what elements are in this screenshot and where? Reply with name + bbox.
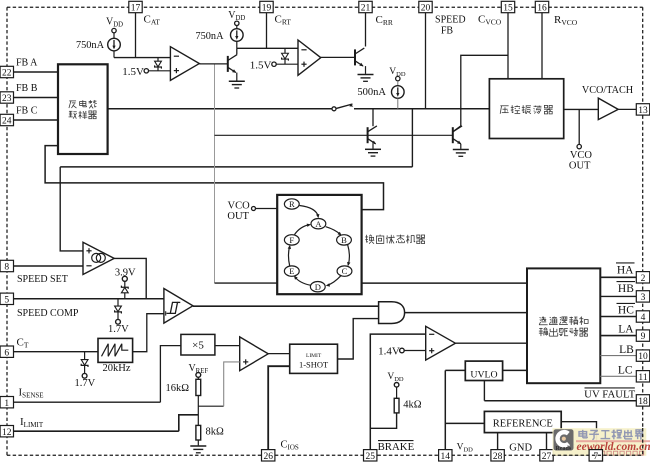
svg-text:19: 19	[262, 4, 272, 14]
svg-text:4: 4	[641, 313, 646, 323]
watermark red underline strip	[576, 440, 650, 442]
diode 1.7V clamp	[117, 299, 119, 306]
resistor 8k	[196, 425, 201, 440]
svg-text:HC: HC	[618, 305, 634, 317]
pin 6	[0, 346, 13, 357]
wire FB C	[14, 119, 59, 121]
wire discharge transistor base line	[215, 134, 453, 136]
svg-text:13: 13	[638, 106, 648, 116]
resistor 4k	[394, 398, 399, 413]
CJK char 向	[379, 235, 381, 236]
transistor Q4	[452, 127, 454, 143]
pin 2	[636, 272, 649, 283]
svg-text:SPEED COMP: SPEED COMP	[17, 308, 79, 319]
transistor Q3	[367, 127, 369, 143]
wire CIOS pin26 to one-shot	[268, 366, 290, 449]
CJK char 驱	[559, 327, 563, 329]
CJK char 和	[581, 317, 582, 318]
wire ILIMIT	[14, 430, 179, 432]
svg-text:VCO: VCO	[228, 200, 251, 211]
wire U1 output	[199, 63, 228, 65]
wire sampler phase-select feedback	[45, 146, 383, 210]
CJK char 器	[417, 235, 420, 237]
wire align-done to state machine	[215, 282, 278, 284]
diode 1.7V clamp CT	[84, 352, 86, 360]
wire VDD to reference	[445, 422, 484, 424]
svg-text:VCO: VCO	[570, 150, 593, 161]
CJK char 电	[579, 432, 587, 437]
svg-text:10: 10	[638, 352, 648, 362]
wire ISENSE	[14, 401, 161, 403]
pin 10	[636, 350, 649, 361]
svg-text:20: 20	[421, 4, 431, 14]
pin 27	[540, 450, 553, 461]
pin 7	[589, 450, 602, 461]
svg-text:15: 15	[503, 4, 513, 14]
pin 12	[0, 426, 13, 437]
wire HA	[600, 276, 636, 278]
wire 1.5V to comparator U2	[276, 63, 298, 65]
CJK char 势	[89, 101, 93, 103]
svg-text:LIMIT: LIMIT	[306, 353, 322, 359]
svg-text:3: 3	[641, 293, 646, 303]
watermark logo	[554, 429, 574, 450]
pin 17	[129, 1, 142, 12]
svg-text:SPEED SET: SPEED SET	[17, 274, 68, 285]
CJK char 换	[366, 235, 368, 243]
wire SPEED SET	[14, 265, 84, 267]
wire osc to PWM comparator	[133, 314, 164, 352]
state B	[337, 235, 352, 245]
gm error amplifier	[83, 242, 114, 274]
svg-text:1.7V: 1.7V	[108, 324, 129, 335]
svg-text:LB: LB	[619, 344, 634, 356]
wire SPEED COMP node	[14, 298, 164, 300]
wire Q1 collector	[236, 48, 238, 54]
output driver box	[527, 268, 600, 383]
wire VDD to UVLO	[445, 369, 465, 371]
terminal circle	[112, 28, 116, 32]
svg-text:1: 1	[4, 399, 9, 409]
svg-text:×5: ×5	[192, 340, 204, 352]
pin 16	[535, 1, 548, 12]
svg-text:LC: LC	[618, 365, 633, 377]
svg-text:17: 17	[131, 4, 141, 14]
svg-text:16: 16	[537, 4, 547, 14]
pin 20	[419, 1, 432, 12]
transistor Q1	[227, 56, 229, 72]
state A	[311, 219, 326, 229]
wire AND output to driver	[405, 312, 527, 314]
zener 3.9V clamp	[124, 281, 126, 287]
svg-text:5: 5	[4, 295, 9, 305]
wire buffer to pin13	[618, 108, 636, 110]
wire pin19 to CRT node	[266, 13, 268, 49]
wire Q4 collector to CVCO	[453, 55, 508, 132]
arrow C to D	[327, 276, 341, 286]
CJK char 工	[601, 430, 609, 432]
CJK char 器	[544, 105, 547, 107]
wire pin17 to CAT node	[135, 13, 137, 58]
wire one-shot output to AND	[338, 319, 379, 359]
arrow D to E	[295, 277, 311, 285]
wire 1.5V to comparator U1	[149, 70, 171, 72]
current source 750nA I2	[231, 29, 244, 42]
svg-text:UV FAULT: UV FAULT	[584, 388, 635, 400]
pin 25	[364, 450, 377, 461]
svg-text:FB: FB	[441, 26, 454, 37]
comparator U2 (ramp)	[298, 40, 321, 75]
svg-text:SPEED: SPEED	[435, 15, 466, 26]
svg-text:16kΩ: 16kΩ	[165, 383, 189, 394]
svg-text:FB B: FB B	[16, 83, 38, 94]
svg-text:1-SHOT: 1-SHOT	[299, 360, 329, 370]
svg-text:750nA: 750nA	[195, 31, 224, 42]
svg-text:24: 24	[2, 117, 12, 127]
CJK char 控	[511, 105, 513, 113]
pin 9	[636, 330, 649, 341]
CJK char 选	[541, 317, 544, 318]
clamp diode D1	[157, 58, 159, 62]
svg-text:B: B	[341, 235, 347, 245]
CJK char 器	[580, 328, 583, 330]
20kHz triangle oscillator box	[98, 338, 133, 362]
wire pin14 VDD rail	[444, 370, 446, 449]
CJK char 反	[69, 100, 76, 102]
svg-text:4kΩ: 4kΩ	[403, 399, 422, 410]
wire CRT node	[237, 47, 298, 49]
arrow A to B	[326, 227, 341, 235]
svg-text:HB: HB	[618, 283, 634, 295]
CJK char 取	[69, 110, 73, 112]
arrow B to C	[348, 245, 350, 265]
wire LC	[600, 375, 636, 377]
wire switch to VCO input	[354, 108, 489, 110]
pin 4	[636, 311, 649, 322]
pin 5	[0, 293, 13, 304]
CJK char 态	[397, 235, 405, 237]
wire ILIMIT join	[179, 415, 199, 431]
LIMIT 1-SHOT box	[290, 344, 338, 373]
pin 19	[260, 1, 273, 12]
svg-text:OUT: OUT	[569, 161, 591, 172]
PWM comparator U3	[164, 289, 193, 324]
wire pin16 to VCO box	[541, 13, 543, 79]
pin 3	[636, 291, 649, 302]
watermark small text	[594, 451, 598, 455]
svg-text:6: 6	[4, 348, 9, 358]
dashed boundary bottom segment over watermark	[552, 454, 643, 456]
dashed boundary right segment over watermark	[642, 428, 644, 455]
wire 500nA to node	[397, 98, 399, 109]
CJK char 逻	[559, 316, 562, 319]
svg-text:VCO/TACH: VCO/TACH	[582, 85, 634, 96]
svg-text:1.4V: 1.4V	[378, 346, 400, 358]
svg-text:11: 11	[638, 373, 647, 383]
svg-text:GND: GND	[509, 442, 532, 453]
wire speed feedback to gm amp	[411, 109, 413, 167]
brake comparator U5	[426, 326, 456, 360]
ground Q1	[229, 80, 245, 82]
CJK char 器	[89, 111, 92, 113]
svg-text:FB A: FB A	[16, 58, 38, 69]
wire HB	[600, 295, 636, 297]
svg-text:23: 23	[2, 94, 12, 104]
wire 4k pulldown join	[370, 413, 396, 428]
svg-text:D: D	[315, 282, 321, 292]
wire ISENSE to x5	[160, 346, 181, 403]
pin 28	[491, 450, 504, 461]
svg-text:26: 26	[263, 452, 273, 462]
state C	[337, 266, 352, 276]
svg-text:BRAKE: BRAKE	[378, 441, 415, 453]
wire gm output	[114, 258, 146, 298]
wire comparator U1 output rail (gray)	[214, 64, 216, 283]
wire state machine output to driver	[362, 282, 528, 284]
pin 23	[0, 92, 13, 103]
current source 500nA I3	[392, 86, 405, 99]
wire U2 output	[321, 56, 355, 58]
CJK char 通	[549, 316, 552, 319]
state D	[310, 282, 325, 292]
dashed boundary left	[6, 7, 8, 455]
wire reference to pin28 GND	[497, 433, 499, 450]
pin 8	[0, 260, 13, 271]
dashed boundary bottom	[7, 454, 643, 456]
ground Q4	[453, 149, 469, 151]
svg-text:20kHz: 20kHz	[103, 363, 131, 374]
wire divider tap to U4 + input	[198, 405, 223, 407]
svg-text:8kΩ: 8kΩ	[206, 426, 225, 437]
svg-text:F: F	[289, 235, 294, 245]
pin 15	[501, 1, 514, 12]
commutation state machine box	[277, 195, 361, 294]
pin 22	[0, 66, 13, 77]
wire VCO output	[564, 108, 599, 110]
svg-text:HA: HA	[617, 264, 634, 276]
ground Q2	[358, 74, 374, 76]
wire 1.4V to + input	[404, 350, 426, 352]
watermark background	[553, 428, 647, 456]
wire reference to pin27	[546, 433, 548, 450]
svg-text:UVLO: UVLO	[470, 369, 497, 380]
pin 21	[359, 1, 372, 12]
terminal VCO OUT input	[252, 207, 256, 211]
CJK char 状	[386, 235, 388, 243]
resistor 16k	[196, 379, 201, 395]
ground Q3	[365, 148, 381, 150]
CJK char 输	[539, 328, 542, 330]
terminal VCO OUT	[577, 144, 581, 148]
wire LA	[600, 335, 636, 337]
CJK char 电	[80, 102, 86, 106]
svg-text:1.5V: 1.5V	[122, 66, 144, 78]
CJK char 动	[570, 328, 573, 330]
switch S1	[332, 107, 336, 111]
svg-text:8: 8	[4, 263, 9, 273]
pin 26	[262, 450, 275, 461]
pin 13	[636, 104, 649, 115]
current source 750nA I1	[108, 38, 121, 51]
wire pin20 to speed-fb node	[425, 13, 427, 109]
wire pin15 to VCO box	[507, 13, 509, 79]
pin 1	[0, 397, 13, 408]
svg-text:Reads: Reads	[556, 446, 572, 452]
svg-text:25: 25	[365, 452, 375, 462]
svg-text:12: 12	[2, 428, 12, 438]
svg-text:14: 14	[441, 452, 451, 462]
wire reference to pin7	[561, 422, 596, 450]
AND gate G1	[379, 302, 405, 324]
CJK char 压	[500, 105, 508, 107]
wire FB B	[14, 97, 59, 99]
svg-text:28: 28	[493, 452, 503, 462]
CJK char 样	[79, 111, 81, 119]
CJK char 振	[522, 105, 524, 113]
svg-text:C: C	[342, 266, 348, 276]
wire VCO OUT to state machine	[256, 208, 278, 210]
wire PWM output	[193, 305, 379, 307]
svg-text:2: 2	[641, 274, 646, 284]
svg-text:REFERENCE: REFERENCE	[493, 418, 553, 429]
wire LB	[600, 355, 636, 357]
CJK char 子	[590, 429, 598, 431]
wire back-EMF sampler output to switch	[108, 108, 333, 110]
wire Q3 collector	[372, 109, 374, 126]
state E	[284, 266, 299, 276]
svg-text:LA: LA	[618, 323, 634, 335]
wire Q2 emitter to ground	[365, 66, 367, 74]
wire UVLO to UV FAULT	[483, 381, 485, 401]
pin 24	[0, 114, 13, 125]
REFERENCE box	[484, 411, 561, 432]
terminal 1.5V	[272, 62, 276, 66]
wire CAT node	[114, 57, 170, 59]
buffer VCO/TACH	[598, 98, 618, 120]
svg-text:E: E	[289, 266, 294, 276]
CJK char 程	[613, 430, 615, 431]
CJK char 机	[407, 235, 409, 244]
wire CT pin6	[14, 351, 99, 353]
svg-text:FB C: FB C	[16, 106, 38, 117]
svg-text:500nA: 500nA	[357, 87, 386, 98]
VCO box (voltage controlled oscillator)	[489, 79, 563, 139]
x5 amplifier box	[181, 334, 215, 355]
svg-text:OUT: OUT	[227, 211, 249, 222]
arrow R to A	[300, 206, 319, 217]
pin 14	[439, 450, 452, 461]
CJK char 辑	[569, 316, 572, 318]
wire VCO OUT stub	[578, 109, 580, 144]
wire FB A	[14, 71, 59, 73]
svg-text:1.5V: 1.5V	[250, 60, 272, 72]
svg-text:9: 9	[641, 332, 646, 342]
CJK char 荡	[535, 106, 537, 107]
CJK char 出	[553, 328, 555, 336]
wire HC	[600, 316, 636, 318]
svg-text:21: 21	[361, 4, 371, 14]
ground divider	[190, 445, 206, 447]
wire pin21 to Q2 collector	[365, 13, 367, 47]
transistor Q2	[354, 49, 356, 65]
wire UVLO to driver	[503, 369, 527, 371]
arrow F to A	[295, 225, 310, 235]
wire x5 to comparator	[215, 345, 240, 347]
svg-text:18: 18	[638, 397, 648, 407]
svg-text:A: A	[315, 219, 322, 229]
dashed boundary top	[7, 6, 643, 8]
pin 7	[589, 450, 602, 461]
svg-text:27: 27	[542, 452, 552, 462]
svg-text:1.7V: 1.7V	[75, 378, 96, 389]
dashed boundary right	[642, 7, 644, 455]
back-EMF sampler box	[58, 64, 108, 154]
CJK char 世	[623, 435, 633, 437]
clamp diode D2	[284, 48, 286, 53]
svg-text:7: 7	[593, 452, 598, 462]
CJK char 界	[636, 430, 643, 434]
current limit comparator U4	[240, 337, 269, 371]
UVLO box	[465, 361, 502, 380]
wire BRAKE net	[370, 334, 425, 450]
comparator U1 (align)	[170, 47, 199, 81]
arrow E to F	[288, 246, 289, 266]
pin 18	[636, 395, 649, 406]
svg-text:22: 22	[2, 69, 12, 79]
svg-text:R: R	[289, 199, 295, 209]
pin 11	[636, 371, 649, 382]
svg-text:750nA: 750nA	[76, 40, 105, 51]
wire brake comp output	[455, 342, 527, 344]
wire U4 out to one-shot	[268, 353, 290, 355]
terminal 1.5V	[144, 69, 148, 73]
state R	[284, 199, 299, 209]
state F	[284, 235, 299, 245]
